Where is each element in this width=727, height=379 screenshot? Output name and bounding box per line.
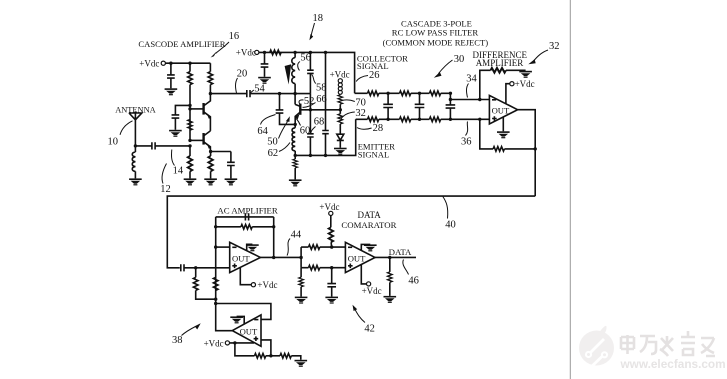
+Vdc terminal (comparator) [361, 264, 366, 284]
emitter line resistor 2 [400, 117, 411, 122]
emitter line resistor 1 [368, 117, 379, 122]
capacitor (AC feedback) [245, 213, 248, 220]
svg-text:62: 62 [268, 148, 279, 159]
op-amp U2 (AC amplifier) [230, 242, 261, 272]
svg-text:38: 38 [172, 335, 183, 346]
capacitor 14 (series coupling) [152, 142, 155, 149]
svg-text:COMARATOR: COMARATOR [341, 220, 396, 230]
resistor 62 (emitter to ground) [294, 155, 296, 159]
svg-text:(COMMON MODE REJECT): (COMMON MODE REJECT) [383, 37, 489, 47]
svg-text:+Vdc: +Vdc [236, 48, 256, 58]
svg-text:+Vdc: +Vdc [257, 280, 277, 290]
svg-text:OUT: OUT [348, 253, 366, 263]
resistor 32 [339, 110, 341, 114]
svg-text:+Vdc: +Vdc [319, 202, 339, 212]
antenna symbol [129, 111, 142, 119]
lower branch [301, 267, 345, 269]
capacitor 58 [309, 52, 311, 70]
svg-text:54: 54 [254, 83, 265, 94]
bottom emitter rail [295, 119, 356, 155]
svg-text:52: 52 [304, 96, 315, 107]
wire lower base [190, 139, 204, 141]
base rail wire [301, 109, 341, 111]
leader for 42 [355, 310, 365, 323]
wire collector down [294, 94, 296, 105]
svg-text:68: 68 [314, 117, 325, 128]
svg-text:www.elecfans.com: www.elecfans.com [620, 357, 726, 371]
op-amp U3 (reference buffer, mirrored) [232, 315, 261, 346]
capacitor 66 column (collector rail to bottom rail) [309, 94, 311, 156]
inductor 70 (choke, stacked loops) [338, 83, 342, 87]
ground (emitter) [289, 179, 302, 186]
leader for 54 [250, 90, 254, 93]
divider bottom rail [235, 343, 255, 356]
leader for 68 [311, 127, 316, 134]
diode (bias) [337, 134, 344, 148]
svg-text:+Vdc: +Vdc [139, 58, 159, 68]
resistor (divider lower) [280, 354, 291, 359]
shunt capacitor 3 [449, 100, 451, 120]
svg-text:10: 10 [108, 136, 119, 147]
leader for 34 [467, 84, 469, 98]
leader for 38 [182, 327, 196, 336]
ground (divider) [295, 360, 308, 367]
ground (ref buffer) [237, 316, 245, 324]
wire input [184, 267, 230, 269]
node L56 top [293, 51, 296, 54]
svg-text:60: 60 [300, 125, 311, 136]
page border line [569, 0, 571, 379]
transistor Q50 (base right, C/E left) [299, 104, 301, 115]
ground (comparator) [361, 244, 370, 250]
svg-text:56: 56 [300, 52, 311, 63]
wire top rail [165, 62, 210, 64]
ground (diff amp) [502, 117, 504, 131]
leader for 20 [236, 78, 238, 93]
wire to base bypass cap [175, 105, 190, 114]
svg-text:32: 32 [355, 108, 366, 119]
node C58 top [309, 51, 312, 54]
collector line resistor 1 [368, 91, 379, 96]
svg-text:AMPLIFIER: AMPLIFIER [476, 58, 524, 68]
resistor (plus bias) [195, 268, 197, 278]
leader for 66 [303, 103, 316, 108]
resistor (output load) [389, 257, 391, 271]
emitter line resistor 3 [429, 117, 440, 122]
svg-text:+Vdc: +Vdc [362, 286, 382, 296]
wire antenna down [134, 120, 136, 146]
capacitor (input coupling) [181, 264, 184, 271]
wire DATA output [375, 256, 416, 258]
resistor (bias upper) [188, 72, 193, 85]
wire [264, 52, 266, 63]
collector line resistor 3 [429, 91, 440, 96]
collector wire 54 rail [250, 93, 311, 95]
node C64 tap [278, 92, 281, 95]
wire minus input [216, 246, 230, 248]
wire output [518, 110, 536, 196]
resistor (bias mid) [188, 120, 193, 131]
svg-text:+Vdc: +Vdc [515, 79, 535, 89]
leader for 70 [343, 100, 355, 102]
svg-text:66: 66 [316, 94, 327, 105]
leader for 56 [298, 62, 300, 71]
inductor (antenna coil) [132, 146, 135, 179]
wire [189, 63, 191, 71]
svg-text:20: 20 [237, 68, 248, 79]
leader for 46 [403, 260, 409, 275]
transistor Q lower (cascode) [202, 133, 204, 145]
svg-text:OUT: OUT [240, 327, 258, 337]
svg-text:64: 64 [257, 126, 268, 137]
svg-text:18: 18 [313, 13, 324, 24]
leader for 18 [311, 23, 314, 36]
wire 20 collector output [210, 93, 246, 95]
collector line resistor 2 [400, 91, 411, 96]
ground (AC amp) [247, 244, 253, 251]
+Vdc terminal (AC amp) [240, 268, 251, 285]
ground (antenna) [129, 178, 142, 185]
ground (input bias) [295, 297, 308, 304]
leader for 30 [439, 60, 453, 74]
svg-text:OUT: OUT [492, 105, 510, 115]
emitter node [209, 150, 212, 153]
leader for 64 [261, 115, 276, 125]
capacitor (plus filter) [331, 268, 333, 297]
feedback resistor line [216, 226, 274, 228]
leader for 26 [356, 76, 368, 82]
leader for 10 [120, 121, 133, 135]
svg-text:30: 30 [454, 54, 465, 65]
svg-text:46: 46 [408, 276, 419, 287]
watermark logo [579, 326, 614, 368]
ground (output load) [384, 296, 397, 303]
wire [170, 63, 172, 74]
svg-text:50: 50 [267, 137, 278, 148]
resistor (pull-up) [329, 227, 334, 242]
svg-text:+Vdc: +Vdc [204, 338, 224, 348]
svg-text:14: 14 [173, 166, 184, 177]
leader for 32 (diff amp) [534, 50, 549, 61]
leader for 52 [299, 100, 303, 105]
feedback cap line [216, 216, 274, 218]
leader for 60 [296, 119, 300, 126]
capacitor (emitter bypass) [230, 152, 232, 163]
resistor (supply feed) [270, 50, 281, 55]
inductor 60 (emitter coil) [292, 128, 295, 156]
upper branch [301, 246, 345, 248]
resistor (plus input) [309, 265, 320, 270]
resistor (emitter degeneration) [210, 152, 212, 157]
ground (plus filter) [325, 297, 338, 304]
resistor (minus bias) [213, 277, 218, 290]
capacitor 54 (series coupling) [247, 90, 250, 97]
leader for 40 [443, 197, 448, 219]
resistor (bias lower) [189, 146, 191, 156]
wire top rail [259, 52, 355, 93]
wire 40 (feedback loop) [167, 196, 535, 268]
wire [189, 85, 191, 141]
resistor (minus input) [309, 245, 320, 250]
node [188, 62, 191, 65]
wire divider node [216, 299, 233, 331]
shunt capacitor 1 [387, 93, 389, 119]
op-amp U4 (data comparator) [345, 242, 375, 272]
wire [264, 67, 266, 77]
svg-text:36: 36 [461, 137, 472, 148]
svg-text:+Vdc: +Vdc [330, 70, 350, 80]
svg-text:42: 42 [364, 323, 375, 334]
wire [170, 78, 172, 88]
ground (minus ref) [519, 71, 532, 78]
leader for 62 [279, 143, 290, 152]
ground (bias chain) [184, 178, 197, 185]
svg-text:34: 34 [466, 74, 477, 85]
capacitor (upper base bypass) [172, 115, 180, 118]
leader for 50 [279, 122, 288, 139]
node collector out [209, 92, 212, 95]
node C68 top [324, 51, 327, 54]
leader for 16 [216, 42, 230, 54]
resistor (AC feedback) [241, 225, 252, 230]
big leader arrowhead (bold pointer) [285, 64, 292, 84]
svg-text:28: 28 [373, 123, 384, 134]
node [263, 51, 266, 54]
wire feedback up [480, 70, 491, 99]
capacitor 68 column (from top rail to bottom rail) [325, 52, 327, 155]
capacitor 64 (input coupling to emitter) [279, 94, 281, 110]
wire plus feedback down [480, 119, 493, 149]
wire plus input [261, 340, 271, 356]
transistor Q upper (cascode) [202, 103, 204, 115]
resistor (load) [209, 63, 211, 71]
wire [174, 118, 176, 130]
leader for 14 [171, 150, 174, 166]
wire minus feedback [216, 304, 271, 320]
svg-text:40: 40 [445, 219, 456, 230]
svg-text:CASCODE AMPLIFIER: CASCODE AMPLIFIER [138, 39, 225, 49]
svg-text:16: 16 [229, 31, 240, 42]
wire minus branch [215, 217, 217, 299]
node minus feedback [478, 98, 481, 101]
ground (emitter resistor) [204, 178, 217, 185]
ground (diode) [334, 148, 347, 155]
capacitor (supply bypass) [167, 75, 175, 78]
leader for 58 [312, 75, 316, 84]
ground [258, 77, 271, 84]
ground [169, 130, 182, 137]
svg-text:SIGNAL: SIGNAL [358, 149, 390, 159]
wire output [260, 256, 301, 258]
svg-text:32: 32 [549, 41, 560, 52]
node collector junction [293, 92, 296, 95]
ground [165, 88, 178, 95]
svg-text:RC LOW PASS FILTER: RC LOW PASS FILTER [392, 28, 479, 38]
shunt capacitor 2 [419, 93, 421, 119]
op-amp U1 (difference amplifier) [489, 95, 517, 124]
resistor (input bias to ground) [300, 268, 302, 278]
resistor (minus to ground) [491, 68, 506, 73]
svg-text:OUT: OUT [232, 253, 250, 263]
wire upper base [190, 108, 204, 110]
resistor (feedback) [493, 147, 504, 152]
svg-text:12: 12 [160, 184, 171, 195]
node [169, 62, 172, 65]
leader for 44 [287, 239, 290, 256]
watermark text (stylized CJK brand glyphs) [621, 331, 715, 356]
wire emitter to bypass [211, 151, 231, 153]
svg-text:DATA: DATA [389, 247, 412, 257]
svg-text:44: 44 [291, 229, 302, 240]
capacitor (supply bypass) [261, 64, 269, 67]
leader for 12 [162, 164, 166, 184]
wire antenna to coupling cap [135, 145, 190, 147]
inductor 56 [292, 52, 295, 93]
ground (emitter bypass) [225, 178, 238, 185]
resistor (divider upper) [255, 354, 266, 359]
input junction [299, 256, 302, 259]
svg-text:26: 26 [369, 70, 380, 81]
svg-text:DATA: DATA [358, 210, 382, 220]
leader for 36 [466, 122, 468, 136]
leader for 32 [341, 112, 355, 120]
resistor 70 [338, 95, 343, 104]
svg-text:AC AMPLIFIER: AC AMPLIFIER [217, 205, 277, 215]
leader for 28 [357, 128, 372, 130]
